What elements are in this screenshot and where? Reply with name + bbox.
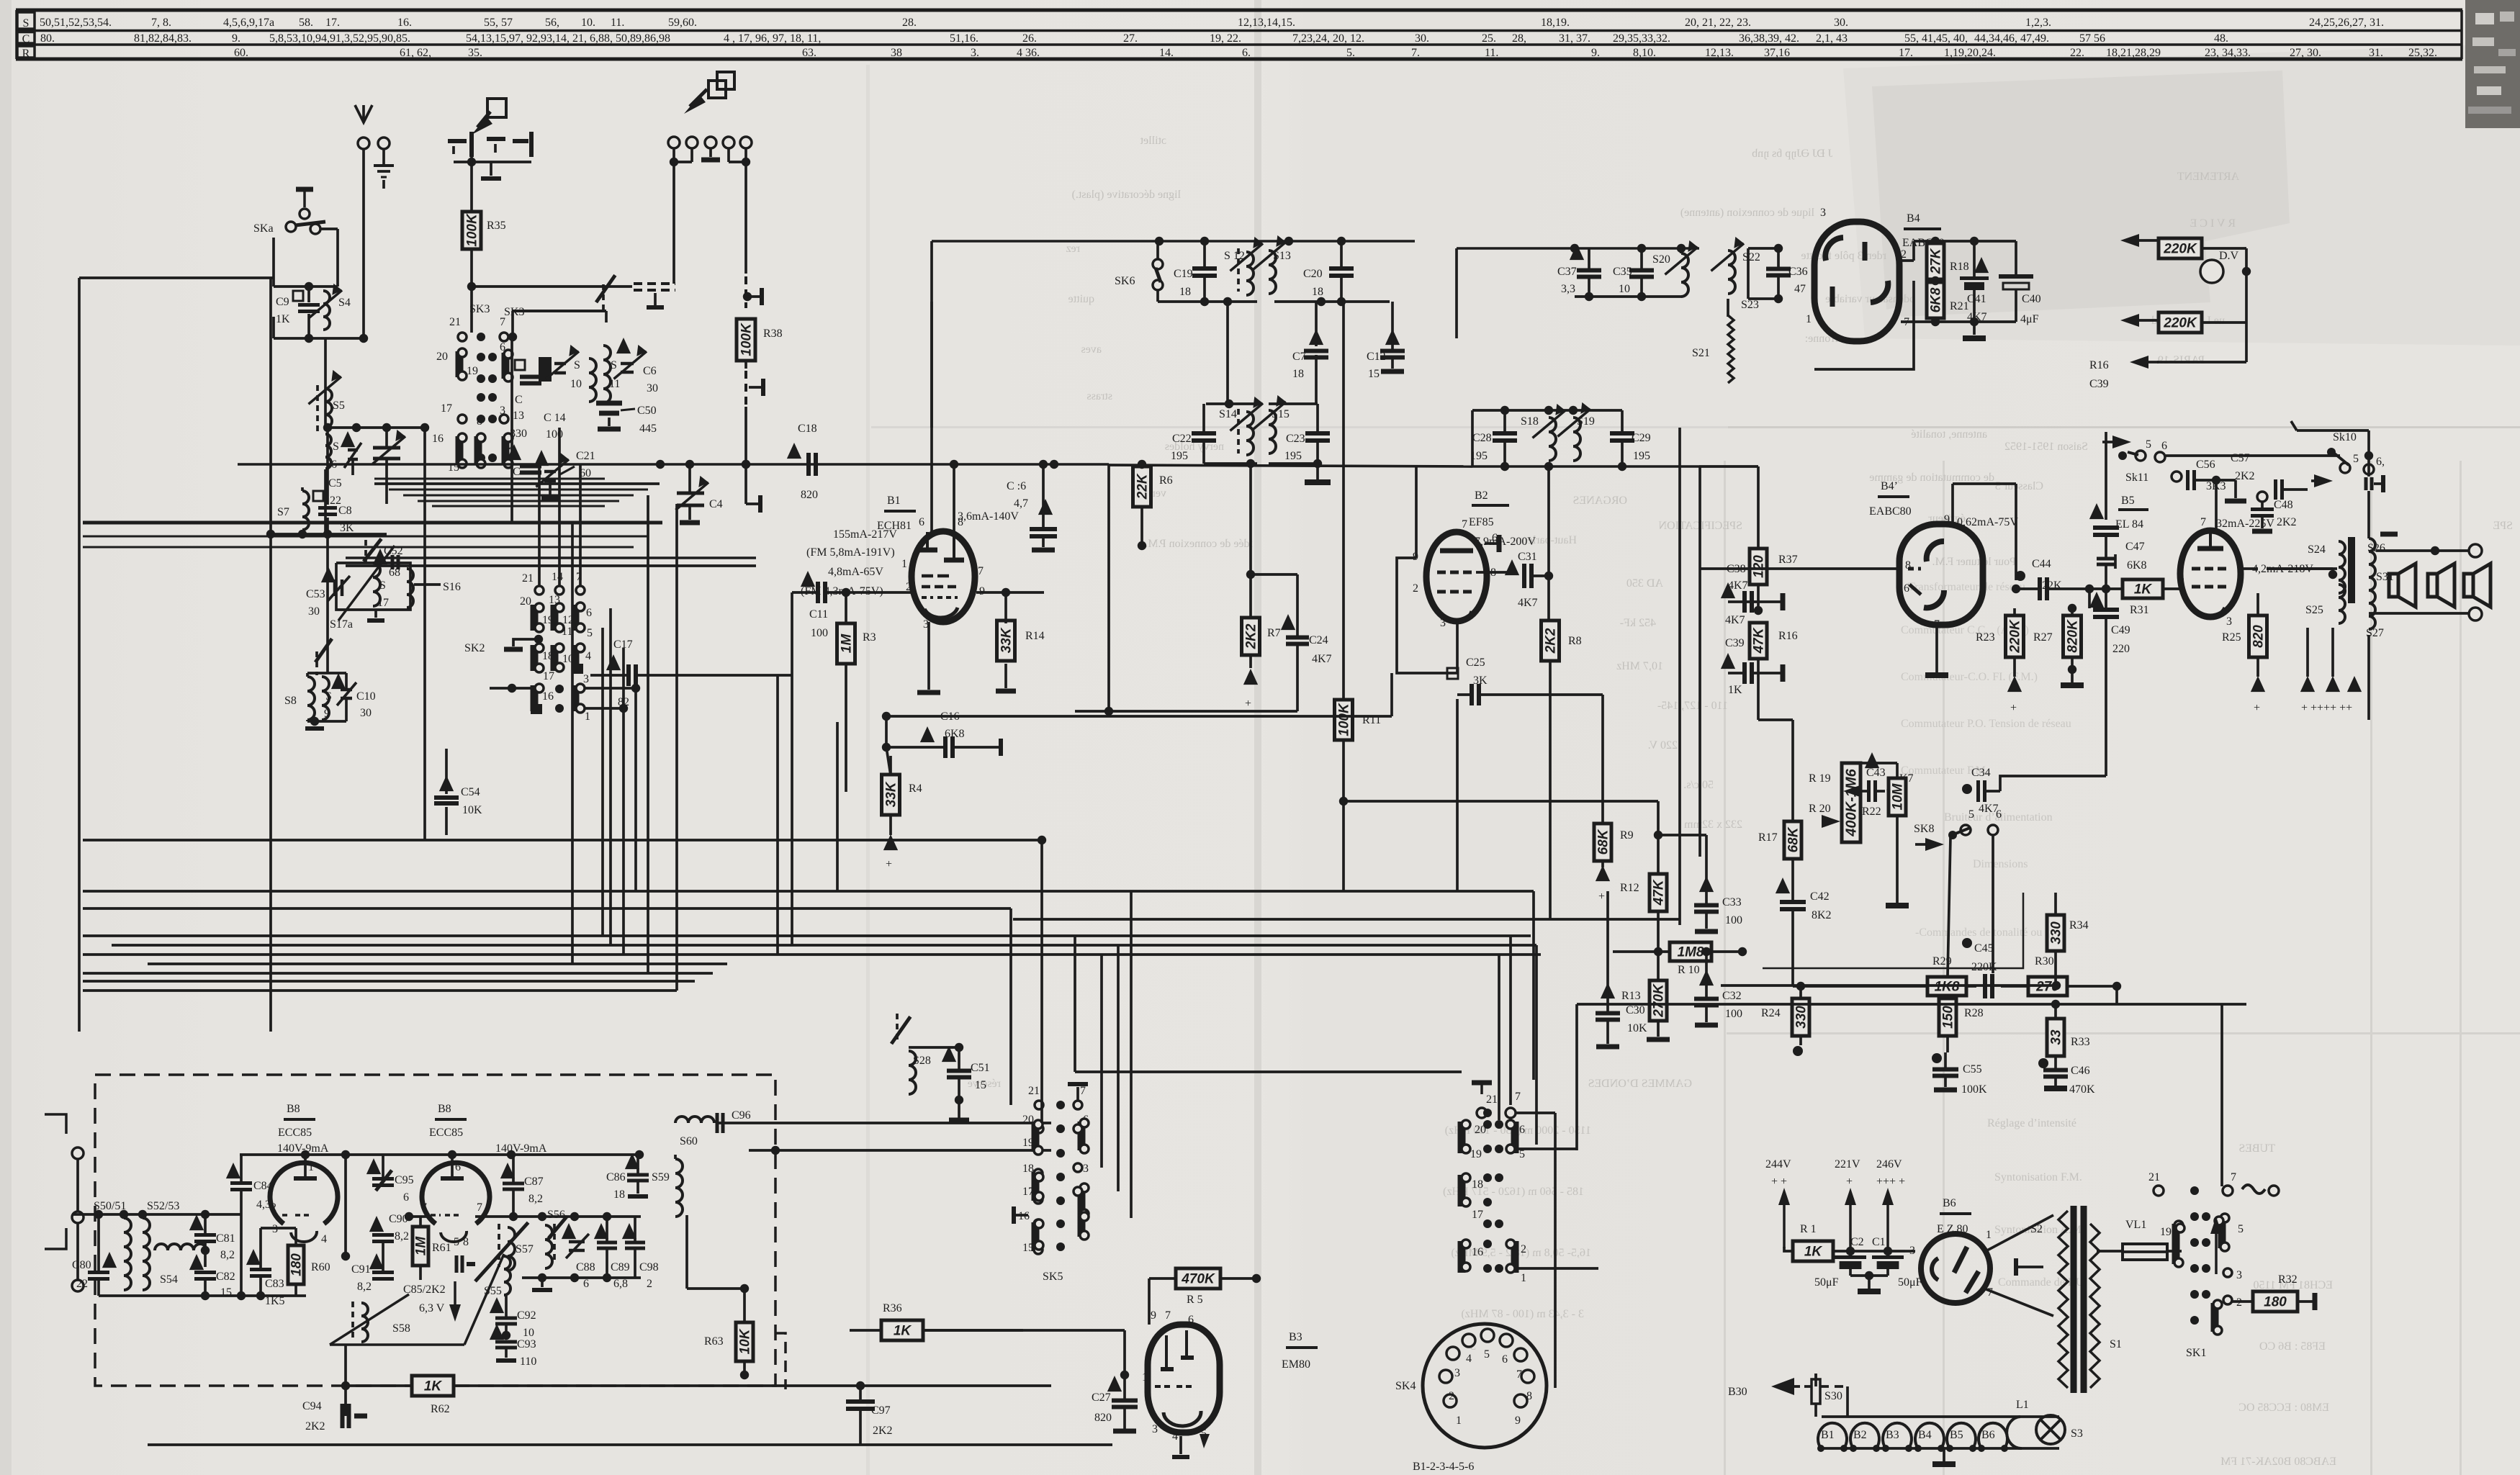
coil S14 <box>1246 412 1254 455</box>
capacitor C8 <box>318 506 337 510</box>
vertical wire x2925 C47 chain <box>2105 432 2107 520</box>
svg-text:100: 100 <box>1725 914 1742 926</box>
svg-text:1M: 1M <box>840 633 855 654</box>
svg-text:9: 9 <box>1515 1415 1521 1427</box>
svg-text:S8: S8 <box>284 695 297 707</box>
svg-text:C30: C30 <box>1626 1004 1645 1016</box>
tube B1 ECH81 <box>912 531 975 622</box>
svg-text:56,: 56, <box>545 17 559 29</box>
SK2 unit 20 19 <box>531 605 539 631</box>
capacitor C56 <box>2172 472 2182 482</box>
svg-text:R: R <box>22 48 30 60</box>
dial lamp S3 <box>2036 1415 2065 1444</box>
frame vertical from SKa <box>270 287 271 534</box>
speaker 3 <box>2464 574 2473 597</box>
svg-text:B3: B3 <box>1886 1429 1899 1441</box>
svg-text:C45: C45 <box>1974 942 1994 955</box>
svg-text:820: 820 <box>2251 625 2267 648</box>
svg-text:195: 195 <box>1633 450 1650 462</box>
wire S6 bottom <box>324 469 327 534</box>
svg-text:quitte: quitte <box>1068 293 1094 305</box>
SK2 unit 18 17 <box>531 645 539 671</box>
svg-text:+: + <box>1598 890 1605 903</box>
svg-text:7: 7 <box>500 316 505 328</box>
svg-text:6.: 6. <box>1242 47 1251 59</box>
tube B4 EABC80 <box>1814 222 1899 341</box>
svg-text:2: 2 <box>2179 575 2184 587</box>
speaker wires top <box>2369 550 2474 551</box>
svg-text:C49: C49 <box>2111 624 2130 636</box>
resistor R25 820 <box>2249 615 2267 657</box>
trimmer C95 <box>366 1158 381 1174</box>
svg-text:10: 10 <box>523 1327 534 1339</box>
svg-text:27.: 27. <box>1123 32 1138 45</box>
svg-text:Dimensions: Dimensions <box>1973 858 2028 870</box>
svg-text:5: 5 <box>454 1236 459 1248</box>
svg-text:1K: 1K <box>2134 582 2153 597</box>
capacitor C91 <box>369 1253 384 1269</box>
svg-text:28.: 28. <box>902 17 917 29</box>
capacitor C22 <box>1192 431 1216 436</box>
svg-text:4,8mA-65V: 4,8mA-65V <box>828 566 883 578</box>
svg-text:C5: C5 <box>328 477 342 490</box>
svg-text:7,9mA-200V: 7,9mA-200V <box>1475 536 1536 548</box>
tube B3 EM80 <box>1148 1325 1220 1433</box>
trimmer C21 <box>534 450 549 466</box>
svg-text:100K: 100K <box>1337 703 1352 736</box>
svg-text:R 19: R 19 <box>1809 772 1831 785</box>
capacitor C-6 4.7 <box>1038 499 1053 515</box>
svg-text:16: 16 <box>432 433 444 445</box>
svg-text:47: 47 <box>1794 283 1806 295</box>
transformer coil S50/51 <box>124 1218 131 1290</box>
svg-text:140V-9mA: 140V-9mA <box>495 1142 547 1155</box>
svg-text:22K: 22K <box>1135 473 1151 500</box>
capacitor C47 <box>2093 526 2119 530</box>
svg-text:C51: C51 <box>971 1062 990 1074</box>
svg-text:AD 350: AD 350 <box>1626 577 1663 590</box>
svg-text:7: 7 <box>1516 1368 1522 1381</box>
C48 branch <box>2257 492 2267 502</box>
SK3 box wires <box>513 336 606 338</box>
svg-text:B1: B1 <box>887 495 901 507</box>
B4 top section box wire <box>1457 247 1575 250</box>
B4 bias network top wire <box>1901 259 1914 262</box>
bus mesh verticals to SK5 <box>1009 908 1012 1105</box>
svg-text:19, 22.: 19, 22. <box>1210 32 1241 45</box>
resistor R37 120 <box>1750 549 1767 585</box>
capacitor C89 <box>594 1223 608 1239</box>
svg-text:7: 7 <box>1165 1309 1171 1322</box>
svg-text:6,3 V: 6,3 V <box>419 1302 445 1314</box>
svg-text:4μF: 4μF <box>2020 313 2039 325</box>
svg-text:ligne décorative (plast.): ligne décorative (plast.) <box>1072 189 1182 201</box>
svg-text:1: 1 <box>1142 1371 1148 1384</box>
terminal row top <box>668 137 680 148</box>
svg-text:+: + <box>2010 702 2017 714</box>
SKa frame box <box>336 229 339 287</box>
SK2 unit 3 1 <box>572 685 580 711</box>
speaker 2 <box>2428 574 2437 597</box>
svg-text:C22: C22 <box>1172 433 1192 445</box>
C41 ground <box>1973 322 1976 335</box>
capacitor C15 triangle <box>507 444 521 460</box>
svg-text:6: 6 <box>1904 582 1909 595</box>
svg-text:S1: S1 <box>2110 1338 2122 1350</box>
svg-text:C37: C37 <box>1557 266 1577 278</box>
svg-text:R37: R37 <box>1778 554 1798 566</box>
plug symbol 1 <box>487 99 506 117</box>
svg-text:1: 1 <box>1521 1272 1526 1284</box>
wire B6 cathode to lamps <box>1858 1325 1953 1386</box>
wire R38 down to bus <box>744 407 747 464</box>
svg-text:C91: C91 <box>351 1263 371 1276</box>
svg-text:8,2: 8,2 <box>528 1193 543 1205</box>
svg-text:27K: 27K <box>1929 248 1944 274</box>
scale lamps B1-B6 <box>1818 1423 1847 1448</box>
svg-text:C85/2K2: C85/2K2 <box>403 1284 446 1296</box>
svg-text:C44: C44 <box>2032 558 2051 570</box>
R8 junction dots <box>1548 694 1549 695</box>
svg-text:S 12: S 12 <box>1224 250 1245 262</box>
capacitor C33 <box>1699 876 1714 892</box>
svg-text:2,1, 43: 2,1, 43 <box>1816 32 1848 45</box>
svg-text:4: 4 <box>585 650 591 662</box>
svg-text:R3: R3 <box>863 631 876 644</box>
svg-text:6: 6 <box>1188 1314 1194 1326</box>
svg-text:B6: B6 <box>1943 1197 1956 1209</box>
svg-text:17.: 17. <box>325 17 340 29</box>
box S13 frame <box>1274 300 1390 303</box>
svg-text:155mA-217V: 155mA-217V <box>833 528 897 541</box>
svg-text:15: 15 <box>975 1079 986 1091</box>
secondary winding S26 S31 S27 <box>2369 538 2375 616</box>
svg-text:220K: 220K <box>2163 316 2197 331</box>
capacitor C42 <box>1776 878 1790 893</box>
svg-text:C53: C53 <box>306 588 325 600</box>
S8 S9 C10 block <box>315 651 318 675</box>
svg-text:SK5: SK5 <box>1043 1271 1063 1283</box>
wire from B4 left to lower <box>1814 281 1914 369</box>
svg-text:R28: R28 <box>1964 1007 1984 1019</box>
svg-text:6: 6 <box>1996 808 2002 821</box>
svg-text:SK8: SK8 <box>1914 823 1934 835</box>
SK2 unit 16 <box>531 685 539 711</box>
output transformer core <box>2348 537 2355 603</box>
svg-text:R4: R4 <box>909 782 922 795</box>
svg-text:C96: C96 <box>732 1109 751 1122</box>
svg-text:EF85 : B6 CO: EF85 : B6 CO <box>2259 1340 2326 1353</box>
svg-text:B4: B4 <box>1918 1429 1932 1441</box>
terminal bus segments <box>674 161 692 163</box>
svg-text:R25: R25 <box>2222 631 2241 644</box>
svg-text:4 36.: 4 36. <box>1017 47 1040 59</box>
svg-text:2K2: 2K2 <box>2235 470 2255 482</box>
B8b cathode <box>441 1231 467 1242</box>
svg-text:2K2: 2K2 <box>1544 628 1559 654</box>
svg-text:7: 7 <box>1080 1085 1086 1097</box>
wire y1528 <box>959 1099 1023 1101</box>
svg-text:3.: 3. <box>971 47 979 59</box>
svg-text:S: S <box>574 359 580 371</box>
DV output circle <box>2200 260 2223 283</box>
wire to R35 <box>470 157 473 212</box>
svg-text:8: 8 <box>477 415 482 428</box>
SK4 unit 2 1 <box>1511 1241 1519 1273</box>
svg-text:C23: C23 <box>1286 433 1305 445</box>
svg-text:SPE: SPE <box>2493 520 2513 532</box>
svg-text:9: 9 <box>324 708 330 720</box>
svg-text:10,7 MHz: 10,7 MHz <box>1616 660 1663 672</box>
resistor R38 100K <box>737 319 755 361</box>
FM HT rail y1604 <box>240 1153 641 1156</box>
box S17 frame <box>336 563 410 610</box>
svg-text:C48: C48 <box>2274 499 2293 511</box>
svg-text:1: 1 <box>308 1161 314 1173</box>
SK2 unit 4 <box>572 645 580 671</box>
svg-text:59,60.: 59,60. <box>668 17 697 29</box>
svg-text:aves: aves <box>1081 343 1102 356</box>
svg-text:R63: R63 <box>704 1335 724 1348</box>
svg-text:80.: 80. <box>40 32 55 45</box>
SK2 dots mid <box>555 685 564 693</box>
terminal row stems <box>672 148 675 162</box>
ground R14 <box>996 689 1016 694</box>
S22 S23 box <box>1748 247 1775 250</box>
bundle y777 <box>346 556 756 559</box>
faint fold crease <box>1254 0 1261 1475</box>
svg-text:SKa: SKa <box>253 222 274 235</box>
svg-text:C20: C20 <box>1303 268 1323 280</box>
capacitor C17 <box>606 654 621 670</box>
svg-text:2K2: 2K2 <box>305 1420 325 1433</box>
row letter boxes <box>17 12 35 29</box>
resistor R34 330 <box>2047 915 2064 951</box>
wire y1160 R12 C33 <box>1658 834 1706 836</box>
svg-text:9.: 9. <box>1591 47 1600 59</box>
svg-text:7: 7 <box>978 565 984 577</box>
resistor R29 1K8 <box>1927 977 1966 996</box>
svg-text:220: 220 <box>2112 643 2130 655</box>
B1 pin6 vertical <box>930 302 933 532</box>
svg-text:L1: L1 <box>2016 1399 2029 1411</box>
coil S13 <box>1269 251 1276 294</box>
svg-text:47K: 47K <box>1752 627 1767 654</box>
svg-text:55, 57: 55, 57 <box>484 17 513 29</box>
grounds triangles right <box>2306 628 2309 677</box>
plug symbol 2 <box>708 81 726 98</box>
B8a grid dashes <box>282 1214 291 1217</box>
svg-text:2K2: 2K2 <box>873 1425 893 1437</box>
box bottom bus segment <box>1472 465 1699 468</box>
resistor R3 1M <box>837 623 855 664</box>
wire down to R38 <box>744 162 747 274</box>
svg-text:R35: R35 <box>487 220 506 232</box>
svg-text:19: 19 <box>467 365 478 377</box>
svg-text:C11: C11 <box>809 608 828 621</box>
ghost table lines <box>1724 461 1726 1475</box>
svg-text:820: 820 <box>801 489 818 501</box>
svg-text:C55: C55 <box>1963 1063 1982 1075</box>
svg-text:4 , 17, 96, 97, 18, 11,: 4 , 17, 96, 97, 18, 11, <box>724 32 821 45</box>
svg-text:68: 68 <box>389 567 400 579</box>
svg-text:221V: 221V <box>1835 1158 1860 1170</box>
resistor R60 180 <box>288 1245 304 1284</box>
svg-text:R 1: R 1 <box>1800 1223 1817 1235</box>
svg-text:9.: 9. <box>232 32 240 45</box>
coil S7 <box>302 491 309 530</box>
tube B6 EZ80 <box>1921 1234 1990 1303</box>
svg-text:C88: C88 <box>576 1261 595 1273</box>
wire Sk10 to output <box>2297 429 2369 432</box>
svg-text:S: S <box>379 579 386 592</box>
svg-text:15: 15 <box>1022 1242 1034 1254</box>
svg-text:C89: C89 <box>611 1261 630 1273</box>
svg-text:C47: C47 <box>2125 541 2145 553</box>
svg-text:C98: C98 <box>639 1261 659 1273</box>
svg-text:Sk10: Sk10 <box>2333 431 2357 443</box>
tube B4prime EABC80 <box>1899 524 1983 625</box>
capacitor C24 <box>1281 614 1295 630</box>
svg-text:S3: S3 <box>2071 1427 2083 1440</box>
svg-text:61, 62,: 61, 62, <box>400 47 431 59</box>
svg-text:S24: S24 <box>2308 543 2326 556</box>
svg-text:452 kF-: 452 kF- <box>1620 617 1656 629</box>
svg-text:31, 37.: 31, 37. <box>1559 32 1590 45</box>
lamp row bus <box>1822 1415 2059 1418</box>
B5 electrodes <box>2209 531 2212 547</box>
svg-text:6: 6 <box>403 1191 409 1204</box>
svg-text:32mA-225V: 32mA-225V <box>2216 518 2274 530</box>
SK2 feed wires up <box>538 464 541 586</box>
resistor R10 1M8 <box>1670 942 1711 961</box>
capacitor C9 <box>293 291 303 301</box>
svg-text:lique de connexion (antenne): lique de connexion (antenne) <box>1680 207 1814 219</box>
capacitor C25 <box>1447 668 1458 679</box>
svg-text:Commutateur P.O. Tension d: Commutateur P.O. Tension de réseau <box>1901 718 2071 730</box>
svg-text:C :6: C :6 <box>1007 480 1026 492</box>
svg-text:16: 16 <box>1472 1246 1483 1258</box>
svg-text:14: 14 <box>552 571 563 583</box>
svg-text:R30: R30 <box>2035 955 2054 967</box>
svg-text:18,19.: 18,19. <box>1541 17 1570 29</box>
resistor R23 220K <box>2006 615 2024 657</box>
svg-text:7: 7 <box>1515 1091 1521 1103</box>
capacitor C90 <box>369 1216 384 1232</box>
resistor R14 33K <box>997 621 1015 661</box>
coil S15 <box>1269 410 1276 454</box>
svg-text:21: 21 <box>449 316 461 328</box>
svg-text:7.: 7. <box>1411 47 1420 59</box>
svg-text:SK1: SK1 <box>2186 1347 2206 1359</box>
svg-text:B3: B3 <box>1289 1331 1302 1343</box>
small square marker C8 <box>313 491 323 501</box>
svg-text:246V: 246V <box>1876 1158 1902 1170</box>
ground stub after C56 <box>2234 480 2237 498</box>
svg-text:21: 21 <box>1028 1085 1040 1097</box>
svg-text:21: 21 <box>2148 1171 2160 1183</box>
svg-text:SK6: SK6 <box>1115 275 1135 287</box>
svg-text:7,23,24, 20, 12.: 7,23,24, 20, 12. <box>1292 32 1364 45</box>
coil S18 <box>1549 418 1556 461</box>
svg-text:C57: C57 <box>2231 452 2250 464</box>
wire S28 top <box>909 1046 959 1049</box>
capacitor C83 <box>246 1249 261 1265</box>
coil S12 <box>1246 252 1254 295</box>
svg-text:7: 7 <box>477 1201 482 1214</box>
S56 box top <box>475 1215 641 1218</box>
svg-text:820: 820 <box>1094 1412 1112 1424</box>
mains tilde <box>2242 1185 2265 1194</box>
bus wire y1277 <box>1013 919 1758 920</box>
SK1 vertical from bus <box>2220 1004 2223 1186</box>
ground stub mid <box>654 293 657 305</box>
box S14 S15 <box>1206 402 1257 405</box>
bus mesh left frame verticals <box>82 840 84 991</box>
svg-text:C 14: C 14 <box>544 412 566 424</box>
svg-text:6: 6 <box>583 1278 589 1290</box>
rail y1598 <box>749 1149 1051 1152</box>
svg-text:1: 1 <box>1806 313 1812 325</box>
svg-text:15: 15 <box>1368 368 1380 380</box>
svg-text:44,34,46, 47,49.: 44,34,46, 47,49. <box>1974 32 2049 45</box>
coil S55 <box>504 1256 510 1295</box>
wires top right corner region <box>2246 248 2247 249</box>
svg-text:C24: C24 <box>1309 634 1328 646</box>
svg-text:2: 2 <box>1413 582 1418 595</box>
svg-text:3,6mA-140V: 3,6mA-140V <box>958 510 1019 523</box>
coil S19 <box>1573 418 1580 461</box>
B1 pin8 vertical to bus <box>953 464 955 532</box>
svg-text:+: + <box>1846 1176 1853 1188</box>
svg-text:3: 3 <box>1152 1423 1158 1435</box>
svg-text:S59: S59 <box>652 1171 670 1183</box>
svg-text:18: 18 <box>613 1188 625 1201</box>
svg-text:R36: R36 <box>883 1302 902 1314</box>
B4p pin8 wire left <box>1700 567 1901 570</box>
svg-text:63.: 63. <box>802 47 816 59</box>
svg-text:23, 34,33.: 23, 34,33. <box>2205 47 2251 59</box>
svg-text:D.V: D.V <box>2219 250 2239 262</box>
svg-text:100: 100 <box>811 627 828 639</box>
svg-text:C1: C1 <box>1872 1236 1886 1248</box>
svg-text:6,8: 6,8 <box>613 1278 628 1290</box>
svg-text:10: 10 <box>570 378 582 390</box>
tuning gang line <box>330 1343 464 1346</box>
wire pot top <box>1986 790 2000 793</box>
wire mid horizontal y1050 <box>792 755 1084 757</box>
svg-text:B2: B2 <box>1475 490 1488 502</box>
svg-text:C32: C32 <box>1722 990 1742 1002</box>
wire C3 to box <box>385 490 388 504</box>
svg-text:330: 330 <box>1794 1006 1809 1029</box>
svg-text:16.: 16. <box>397 17 412 29</box>
svg-text:58.: 58. <box>299 17 313 29</box>
svg-text:C21: C21 <box>576 450 595 462</box>
coil S57 <box>508 1227 515 1271</box>
svg-text:9: 9 <box>1944 513 1950 526</box>
B6 internals <box>1954 1247 1967 1273</box>
svg-text:C: C <box>22 33 30 45</box>
svg-text:22.: 22. <box>2070 47 2084 59</box>
resistor R32 180 <box>2253 1291 2298 1312</box>
long vertical x2333 <box>1678 428 1681 925</box>
top index bar frame <box>16 9 2462 12</box>
svg-text:17: 17 <box>1022 1186 1034 1198</box>
main bus y645 <box>325 464 326 465</box>
svg-text:S58: S58 <box>392 1322 410 1335</box>
speaker terminals <box>2469 544 2482 557</box>
